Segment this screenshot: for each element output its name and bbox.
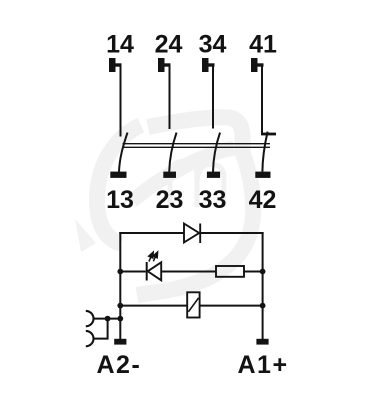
terminal pad A2: [114, 339, 126, 345]
terminal pad A1: [256, 339, 268, 345]
contact arm 42-41: [262, 132, 267, 172]
junction dot right rail / coil branch: [260, 303, 266, 309]
wire coil to right rail: [200, 305, 264, 307]
wire coil branch left: [119, 305, 187, 307]
wire top branch right: [201, 232, 264, 234]
svg-text:23: 23: [156, 186, 184, 214]
diode V1: [184, 224, 200, 244]
svg-text:A1+: A1+: [238, 351, 289, 379]
junction dot left rail / plug branch: [117, 316, 123, 322]
LED arrows: [149, 252, 158, 262]
svg-text:34: 34: [199, 31, 227, 59]
wire plug upper to rail: [94, 318, 121, 320]
wire LED to resistor: [161, 271, 217, 273]
svg-text:33: 33: [199, 186, 227, 214]
junction dot right rail / LED branch: [260, 269, 266, 275]
wire 34 down: [212, 65, 214, 129]
svg-text:42: 42: [249, 186, 277, 214]
terminal symbol 34: [202, 58, 215, 72]
wire 41 down: [261, 65, 263, 135]
terminal pad 42: [255, 172, 270, 178]
wire LED branch left: [119, 271, 145, 273]
watermark logo: [75, 117, 253, 295]
junction dot plug wires: [105, 316, 111, 322]
left rail wire: [119, 232, 121, 340]
wire plug lower: [94, 319, 108, 339]
mechanical linkage (double line): [123, 144, 271, 148]
svg-text:13: 13: [106, 186, 134, 214]
right rail wire: [262, 232, 264, 340]
plug contact upper: [86, 311, 94, 326]
terminal pad 13: [110, 172, 126, 178]
wire top branch left: [119, 232, 184, 234]
terminal pad 33: [207, 172, 220, 178]
contact arm 33-34: [213, 133, 220, 172]
wire resistor to right rail: [244, 271, 264, 273]
terminal symbol 41: [251, 58, 264, 72]
LED: [147, 262, 162, 281]
terminal symbol 24: [158, 58, 171, 72]
resistor R1: [216, 266, 244, 277]
junction dot left rail / coil branch: [117, 303, 123, 309]
junction dot left rail / LED branch: [117, 269, 123, 275]
svg-text:24: 24: [155, 31, 183, 59]
wire 24 down: [169, 65, 171, 129]
relay coil K1: [187, 292, 199, 317]
plug contact lower: [86, 331, 94, 346]
NC contact stop bar 41: [261, 133, 276, 136]
svg-text:A2-: A2-: [97, 351, 142, 379]
terminal pad 23: [163, 172, 176, 178]
contact arm 23-24: [169, 133, 176, 172]
svg-text:41: 41: [249, 31, 277, 59]
terminal symbol 14: [109, 58, 122, 72]
wire 14 down: [120, 65, 122, 137]
svg-text:14: 14: [106, 31, 134, 59]
contact arm 13-14: [119, 133, 128, 172]
